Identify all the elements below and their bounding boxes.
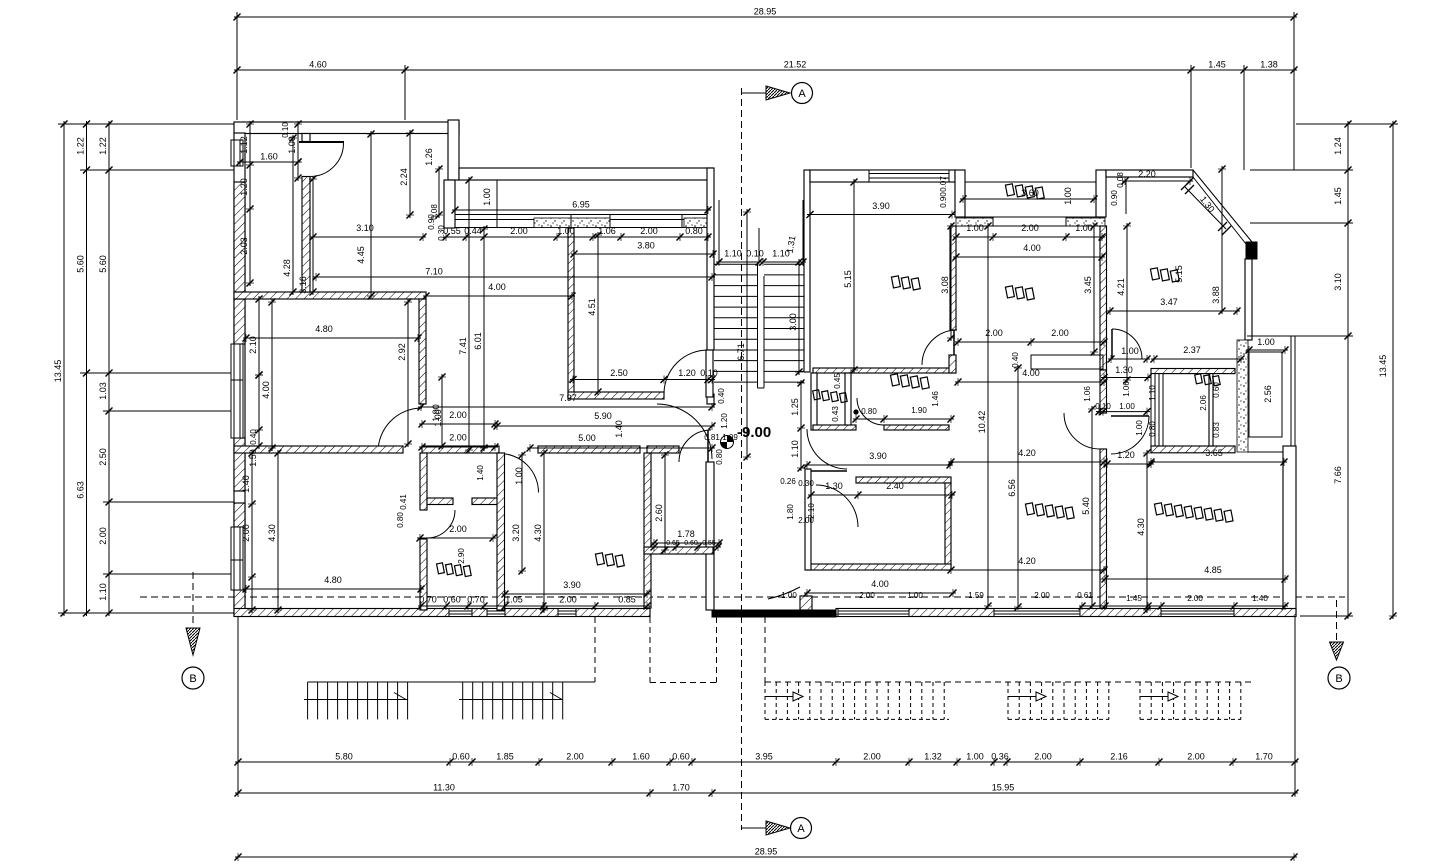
svg-text:1.70: 1.70 [1255,752,1273,762]
right niche inner box [1249,352,1282,437]
svg-text:1.06: 1.06 [1083,386,1092,402]
right exterior wall upper [1245,259,1252,340]
svg-text:2.00: 2.00 [798,516,814,525]
dim 4.80 room [243,337,421,339]
svg-text:0.08: 0.08 [1116,172,1125,188]
svg-text:2.00: 2.00 [1034,591,1050,600]
svg-text:5.60: 5.60 [76,255,86,273]
right exterior stair flight 1 dashed [764,682,766,719]
bottom wall window 5 [1161,609,1234,617]
niche labels 1.00 2.56 [1246,349,1288,351]
left inner chain 2.10 4.00 1.50 0.40 [258,296,260,378]
svg-text:0.90: 0.90 [939,192,948,208]
entrance porch dashed outline [649,617,651,683]
bottom overall dimension 28.95 [235,856,1297,858]
svg-text:1.40: 1.40 [1252,594,1268,603]
svg-text:0.70: 0.70 [467,595,485,605]
balcony dim chain 1.00 2.00 1.00 [953,236,1105,238]
svg-text:0.81: 0.81 [704,433,720,442]
svg-text:3.90: 3.90 [563,580,581,590]
interior wall cell partition [427,498,453,505]
kitchen door leaf [1111,329,1113,359]
section line A vertical dashed [741,88,743,830]
svg-text:0.61: 0.61 [1077,591,1093,600]
dim 6.95 window band [452,209,711,211]
dims 4.20 [948,461,1107,463]
dim 3.90 right block [807,214,955,216]
svg-text:0.80: 0.80 [396,512,405,528]
dim 10.42 [987,223,989,609]
svg-text:3.95: 3.95 [755,752,773,762]
svg-text:0.36: 0.36 [991,752,1009,762]
staircase dimension 1.10 0.10 1.10 [716,261,806,263]
left overall dimension 13.45 [63,121,65,616]
stair arrow 3 [1140,696,1175,698]
bottom dimension chain 5.80 0.60 1.85 2.00 1.60 0.60 3.95 2.00 1.32 1.00 0.36 2.00 2.16 2.00 1.70 [235,761,1298,763]
svg-text:2.00: 2.00 [98,527,108,545]
svg-text:-9.00: -9.00 [737,424,771,441]
dim 7.41 [468,177,470,453]
dim 6.01 [483,226,485,451]
svg-text:5.15: 5.15 [843,270,853,288]
bottom window dim ticks right [1079,605,1288,607]
svg-text:7.41: 7.41 [458,337,468,355]
svg-text:B: B [189,673,196,685]
interior wall room-4.51 bottom [568,392,664,399]
svg-text:4.00: 4.00 [1023,243,1041,253]
dim 4.30 right [1146,450,1148,613]
svg-text:1.20: 1.20 [239,178,249,196]
room label boxes balcony [1004,183,1045,200]
svg-text:4.60: 4.60 [309,60,327,70]
svg-text:3.90: 3.90 [872,201,890,211]
exterior bottom wall right part [836,609,1296,617]
svg-text:3.16: 3.16 [298,276,308,294]
svg-text:2.40: 2.40 [886,481,904,491]
room label boxes wc fixtures [812,389,848,403]
svg-text:4.28: 4.28 [282,259,292,277]
svg-text:3.90: 3.90 [869,451,887,461]
bathroom door arc [857,398,884,425]
stair arrow 1 [765,696,800,698]
dim 3.80 [571,253,716,255]
svg-text:2.06: 2.06 [1199,395,1208,411]
stair arrow 2 [1008,696,1043,698]
dim 6.56 [1017,365,1019,610]
door arc to corridor room [378,408,422,452]
balcony right wall [1096,170,1106,217]
bathroom bottom wall left [813,425,856,430]
svg-text:1.46: 1.46 [931,391,940,407]
svg-text:0.55: 0.55 [443,226,461,236]
svg-text:0.80: 0.80 [715,449,724,465]
svg-text:1.10: 1.10 [98,583,108,601]
svg-text:5.60: 5.60 [98,255,108,273]
dim 4.00 kitchen [423,295,575,297]
left terrace edge line [308,681,595,683]
svg-text:4.85: 4.85 [1204,565,1222,575]
left extension lines [58,123,234,125]
top dimension chain 4.60 / 21.52 / 1.45 / 1.38 [234,69,1297,71]
left wall hatched pier 5 [234,590,245,616]
svg-text:0.80: 0.80 [1148,421,1157,437]
window band mullions [570,215,572,228]
hall left wall door leaf [807,429,847,469]
exterior bottom wall left part [234,609,650,617]
svg-text:4.51: 4.51 [587,298,597,316]
svg-text:1.25: 1.25 [790,398,800,416]
svg-text:3.65: 3.65 [1205,448,1223,458]
svg-text:2.00: 2.00 [1187,594,1203,603]
hall wall below door [805,469,811,570]
room label boxes living [1024,502,1075,520]
svg-text:1.00: 1.00 [907,591,923,600]
svg-text:15.95: 15.95 [992,783,1015,793]
interior wall cell left [420,453,427,510]
bottom chain left block [418,605,650,607]
svg-text:1.00: 1.00 [966,223,984,233]
central wall door arc [922,330,957,365]
left room chain 1.40 2.00 0.40 [251,450,253,613]
bedroom1 top wall [856,477,951,483]
svg-text:0.10: 0.10 [281,122,290,138]
dim 4.28 [292,135,294,295]
dim 1.00 left [297,121,299,181]
interior wall stub top-left [302,134,310,142]
left wall hatched pier 4 [234,503,245,527]
left wall window 1 [231,140,243,166]
svg-text:4.00: 4.00 [488,282,506,292]
room label boxes room 3.90 [594,552,625,568]
svg-text:A: A [797,823,805,835]
svg-text:1.00: 1.00 [966,752,984,762]
dim 3.10 [310,236,426,238]
entry door arc sliver [768,587,800,599]
dim 2.00 2.00 middle [955,341,1107,343]
svg-text:2.00: 2.00 [510,226,528,236]
svg-text:1.00: 1.00 [482,188,492,206]
bedroom1 bottom wall [807,564,951,570]
dim 4.85 [1102,578,1288,580]
svg-text:3.08: 3.08 [940,276,950,294]
dim 3.45 [1093,223,1095,355]
room label boxes kitchen [1149,267,1180,283]
dim 1.60 top-left [237,161,301,163]
svg-text:1.20: 1.20 [678,368,696,378]
bottom wall window 3 [838,609,909,617]
window in right block top wall [869,170,949,182]
hall labels 1.30 2.40 [808,494,955,496]
dim 7.97 [418,406,715,408]
svg-text:7.66: 7.66 [1333,466,1343,484]
dim 2.50 1.20 0.10 [570,379,715,381]
middle window band stipple left [534,218,610,228]
dim 4.51 [597,232,599,395]
dim 3.88 [1221,166,1223,314]
svg-text:1.12: 1.12 [239,136,249,154]
svg-text:6.95: 6.95 [572,200,590,210]
svg-text:1.03: 1.03 [98,382,108,400]
interior wall top-left rooms bottom [234,292,426,299]
svg-text:1.60: 1.60 [260,152,278,162]
svg-text:1.45: 1.45 [1126,594,1142,603]
stair vertical dim 3.00 [798,259,800,375]
dim 1.20 3.65 [1104,463,1154,465]
left wall hatched pier 1 [234,182,245,292]
cell door arc [427,510,455,538]
svg-text:4.30: 4.30 [533,524,543,542]
right extension lines [1296,123,1398,125]
svg-text:1.24: 1.24 [1333,137,1343,155]
exterior top wall middle block [459,168,713,180]
svg-text:0.08: 0.08 [430,204,439,220]
left terrace dashed drop [594,617,596,682]
kitchen door arc [1112,329,1142,359]
svg-text:1.60: 1.60 [632,752,650,762]
svg-text:0.90: 0.90 [1110,190,1119,206]
right overall dimension 13.45 [1392,121,1394,619]
interior wall between top-left rooms hatched [302,177,310,293]
interior wall room-4.51 left [568,228,574,394]
svg-text:1.20: 1.20 [1117,450,1135,460]
bathroom top wall [813,368,955,373]
svg-text:0.55: 0.55 [702,540,716,547]
interior wall storage bottom [644,547,713,554]
dim 7.10 [313,276,715,278]
svg-text:1.00: 1.00 [1135,420,1144,436]
svg-text:2.00: 2.00 [859,591,875,600]
svg-text:1.00: 1.00 [1121,346,1139,356]
svg-text:3.10: 3.10 [1333,273,1343,291]
svg-text:2.24: 2.24 [399,168,409,186]
bathroom bottom wall right [884,425,949,430]
svg-text:1.00: 1.00 [781,591,797,600]
corridor wall segment 3 [538,446,640,453]
svg-text:1.00: 1.00 [1119,402,1135,411]
svg-text:1.05: 1.05 [505,595,523,605]
svg-text:1.45: 1.45 [1333,187,1343,205]
svg-text:7.97: 7.97 [559,393,577,403]
svg-text:1.22: 1.22 [76,137,86,155]
toilet bottom wall [1151,446,1235,453]
bathroom partition [845,373,851,425]
svg-text:3.10: 3.10 [356,223,374,233]
dim 3.90 hall [804,464,953,466]
svg-text:1.40: 1.40 [476,465,485,481]
dims 2.00 2.00 corridor [419,423,498,425]
label 3.60 balcony [960,198,1097,200]
door arc corridor right [679,430,711,462]
svg-text:4.21: 4.21 [1116,278,1126,296]
dim 4.45 [370,131,372,299]
section marker A bottom arrow [742,827,767,829]
balcony left wall [955,170,965,217]
svg-text:1.78: 1.78 [677,529,695,539]
svg-text:1.30: 1.30 [1115,365,1133,375]
interior wall cell right [497,453,505,610]
svg-text:2.10: 2.10 [248,336,258,354]
svg-text:13.45: 13.45 [53,360,63,383]
dim 4.00 middle room [955,381,1107,383]
stairwell right wall [804,170,810,372]
svg-text:5.00: 5.00 [578,433,596,443]
dim 2.24 [409,130,411,218]
corridor wall segment 2 [422,446,499,453]
svg-text:2.00: 2.00 [1187,752,1205,762]
svg-text:1.06: 1.06 [598,226,616,236]
entry porch hatched column [800,596,812,610]
dim 1.90 [441,374,443,449]
svg-text:1.00: 1.00 [557,226,575,236]
dim 5.90 [494,425,715,427]
right niche outline [1247,335,1295,337]
svg-text:4.80: 4.80 [324,575,342,585]
svg-text:1.10: 1.10 [724,249,742,259]
svg-text:2.50: 2.50 [610,368,628,378]
svg-text:4.00: 4.00 [1022,368,1040,378]
svg-text:0.44: 0.44 [464,226,482,236]
exterior top wall right of balcony [1106,170,1193,177]
svg-text:0.26: 0.26 [780,477,796,486]
svg-text:1.40: 1.40 [614,420,624,438]
svg-text:4.30: 4.30 [1136,518,1146,536]
interior wall storage left [644,453,651,608]
left wall hatched pier 3 [234,438,245,491]
svg-text:0.70: 0.70 [419,595,437,605]
svg-text:1.00: 1.00 [1257,337,1275,347]
stair vertical dim 6.71 [746,209,748,460]
living-right wall lower [1100,449,1107,608]
dim 3.47 [1107,310,1240,312]
svg-text:0.40: 0.40 [717,388,726,404]
right terrace dashed edge [765,681,1254,683]
svg-text:1.90: 1.90 [911,406,927,415]
svg-text:4.00: 4.00 [871,579,889,589]
svg-text:5.40: 5.40 [1081,497,1091,515]
svg-text:0.40: 0.40 [249,429,258,445]
svg-text:0.60: 0.60 [672,752,690,762]
stair-hall door upper leaf [706,350,713,397]
stair-hall door lower leaf [657,404,712,459]
room label boxes bedroom top [890,275,921,291]
door arc top-left room [299,141,344,143]
bedroom1 door arc [816,485,858,527]
right exterior wall lower [1283,446,1296,616]
staircase treads [714,263,758,265]
svg-text:0.60: 0.60 [1212,382,1221,398]
svg-text:A: A [798,88,806,100]
svg-text:2.20: 2.20 [1138,169,1156,179]
level marker [721,436,734,449]
svg-text:0.30: 0.30 [798,479,814,488]
svg-text:4.45: 4.45 [356,246,366,264]
room label boxes cell [436,562,473,577]
window band dim chain [443,236,711,238]
svg-text:2.00: 2.00 [1021,223,1039,233]
svg-text:2.00: 2.00 [566,752,584,762]
svg-text:2.37: 2.37 [1183,345,1201,355]
svg-text:3.47: 3.47 [1160,297,1178,307]
dim 3.08 [950,223,952,341]
svg-text:1.06: 1.06 [1122,381,1131,397]
svg-text:0.41: 0.41 [399,494,408,510]
svg-text:0.43: 0.43 [831,406,840,422]
svg-text:1.85: 1.85 [496,752,514,762]
svg-text:2.16: 2.16 [1110,752,1128,762]
svg-text:3.45: 3.45 [1083,276,1093,294]
corridor wall segment 1 [234,446,403,453]
dim 4.00 balcony room [953,256,1105,258]
dim 1.78 storage [651,542,722,544]
dim 4.30 mid room [543,450,545,613]
svg-text:1.80: 1.80 [786,504,795,520]
svg-text:4.30: 4.30 [267,524,277,542]
svg-text:4.20: 4.20 [1018,556,1036,566]
svg-text:2.90: 2.90 [457,548,466,564]
svg-text:2.56: 2.56 [1263,385,1273,403]
room label boxes middle room [1004,285,1035,301]
svg-text:1.09: 1.09 [722,433,738,442]
svg-text:0.10: 0.10 [746,249,764,259]
dim 2.37 [1151,358,1244,360]
bottom wall window 2b [558,609,576,617]
door arc small room [500,454,539,493]
svg-text:2.00: 2.00 [449,410,467,420]
svg-text:6.56: 6.56 [1007,479,1017,497]
svg-text:2.00: 2.00 [559,595,577,605]
corridor wall segment 4 [647,446,679,453]
svg-text:0.80: 0.80 [685,226,703,236]
left wall window 2 [231,344,243,438]
toilet partition [1209,374,1213,446]
svg-text:3.00: 3.00 [788,313,798,331]
right niche stipple wall [1237,340,1248,452]
svg-text:11.30: 11.30 [433,783,455,793]
svg-text:0.83: 0.83 [1212,422,1221,438]
bathroom left wall [811,373,817,430]
svg-text:0.40: 0.40 [1011,352,1020,368]
right exterior stair flight 3 dashed [1139,682,1141,719]
right exterior stair flight 2 dashed [1007,682,1009,719]
dim 3.90 bottom room [502,593,650,595]
dim 5.40 [1091,406,1093,609]
bottom wall window 4 [994,609,1080,617]
top extension lines [236,12,238,120]
left wall window 3 [231,527,243,590]
dim 5.15 [853,179,855,373]
svg-text:2.92: 2.92 [397,343,407,361]
bedroom1 right wall [945,483,951,570]
living room left wall segment [1100,370,1107,413]
svg-text:1.00: 1.00 [1063,187,1073,205]
svg-text:2.00: 2.00 [1034,752,1052,762]
svg-text:2.00: 2.00 [1051,328,1069,338]
room label boxes bathroom [889,373,930,390]
svg-text:21.52: 21.52 [784,60,807,70]
left dimension chain 1.22 / 5.60 / 6.63 [86,121,88,616]
balcony floor outline [965,182,1096,217]
svg-text:1.45: 1.45 [1208,60,1226,70]
svg-text:1.38: 1.38 [1260,60,1278,70]
middle block window band sill lines [455,214,713,216]
step wall between left and middle block [448,120,459,180]
left exterior stair flight 2 [462,682,464,719]
svg-text:5.90: 5.90 [594,411,612,421]
svg-text:1.40: 1.40 [241,475,251,493]
svg-text:2.00: 2.00 [640,226,658,236]
section line B horizontal dashed through plan [140,596,1345,598]
svg-text:3.20: 3.20 [511,524,521,542]
